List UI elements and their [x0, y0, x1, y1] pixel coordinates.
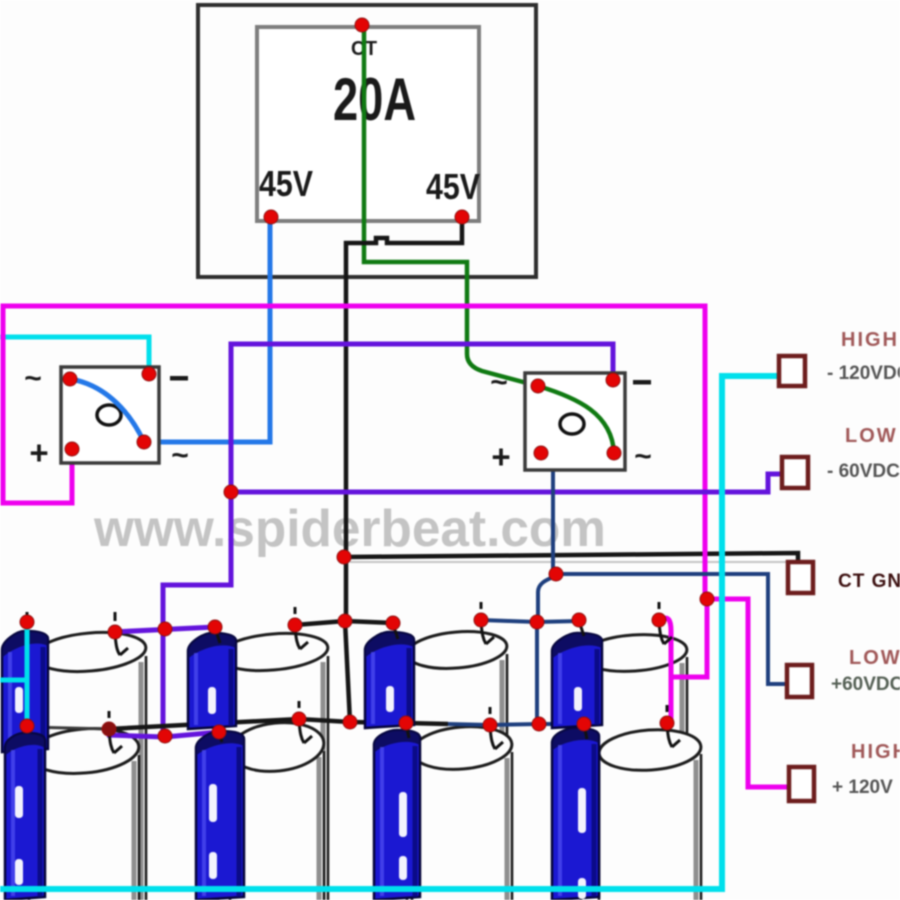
- capacitor C7 sleeve (blue sleeve): [374, 730, 420, 900]
- capacitor C8 can (white cylinder): [598, 726, 703, 900]
- pin C4 minus: [579, 621, 584, 636]
- node purple junction B: [158, 622, 172, 636]
- capacitor C2 can (white cylinder): [217, 629, 330, 900]
- node navy junction A: [549, 567, 563, 581]
- wire navy top cap rail: [481, 620, 579, 622]
- node U1 AC1: [63, 372, 77, 386]
- svg-text:- 120VDC: - 120VDC: [827, 363, 900, 384]
- node C8 plus: [660, 716, 674, 730]
- wire magenta link to C4 C8: [659, 601, 707, 719]
- output terminal HIGH +120V: [789, 741, 900, 801]
- capacitor C1 sleeve (blue sleeve): [2, 631, 48, 752]
- svg-text:45V: 45V: [259, 163, 313, 204]
- node C3 minus: [386, 616, 400, 630]
- node C6 plus: [292, 712, 306, 726]
- output terminal HIGH -120VDC: [779, 329, 900, 386]
- pin C6 plus: [299, 701, 312, 743]
- svg-text:HIGH: HIGH: [851, 741, 900, 763]
- svg-text:www.spiderbeat.com: www.spiderbeat.com: [93, 500, 606, 558]
- pin C6 minus: [219, 733, 222, 742]
- svg-text:~: ~: [634, 440, 652, 473]
- svg-text:+: +: [491, 438, 510, 475]
- wire magenta +120V rail: [3, 306, 705, 599]
- node C1 minus: [20, 615, 34, 629]
- node C6 minus: [212, 725, 226, 739]
- svg-text:+ 120V: + 120V: [832, 777, 893, 798]
- capacitor C2 sleeve (blue sleeve): [188, 633, 236, 729]
- wire purple bottom cap rail: [107, 732, 219, 737]
- pin C2 plus: [295, 607, 308, 649]
- node black junction A: [337, 550, 351, 564]
- capacitor C5 sleeve (blue sleeve): [5, 733, 45, 900]
- node U2 plus: [534, 446, 548, 460]
- wire black CT GND feed: [344, 553, 798, 566]
- wire navy to LOW +60VDC terminal: [553, 574, 799, 684]
- wire magenta to HIGH +120V terminal: [705, 599, 801, 787]
- wire purple top cap rail: [113, 627, 215, 632]
- pin C1 minus: [26, 612, 29, 622]
- capacitor C5 can (white cylinder): [27, 724, 140, 900]
- pin C7 plus: [490, 707, 503, 749]
- wire navy bridge U2 plus: [541, 453, 553, 574]
- capacitor C4 sleeve (blue sleeve): [552, 633, 602, 728]
- node U2 AC2: [607, 446, 621, 460]
- node C8 minus: [577, 717, 591, 731]
- node black junction C: [343, 715, 357, 729]
- wire black vertical between cap rails: [345, 621, 350, 722]
- wire navy vertical between cap rails: [535, 622, 539, 724]
- transformer T1 secondary winding box: [257, 27, 479, 221]
- wire cyan right loop to HIGH -120VDC: [0, 376, 790, 889]
- pin C1 plus: [115, 612, 128, 655]
- node navy junction B: [530, 615, 544, 629]
- node U2 AC1: [531, 379, 545, 393]
- transformer T1 outer case: [198, 5, 536, 277]
- wire gray link C5: [28, 727, 109, 729]
- wire blue 45V left to bridge U1: [146, 217, 270, 442]
- node C7 plus: [483, 718, 497, 732]
- node C5 minus: [20, 719, 34, 733]
- wire purple -60V net: [231, 344, 797, 492]
- node U1 plus: [65, 442, 79, 456]
- pin C8 plus: [667, 705, 680, 747]
- svg-text:45V: 45V: [426, 166, 480, 207]
- svg-text:~: ~: [171, 439, 189, 472]
- capacitor C3 can (white cylinder): [406, 628, 509, 900]
- node CT terminal: [355, 18, 369, 32]
- svg-text:~: ~: [24, 362, 42, 395]
- pin C8 minus: [584, 725, 587, 739]
- node C4 plus: [652, 613, 666, 627]
- node black junction B: [338, 614, 352, 628]
- svg-text:HIGH: HIGH: [841, 329, 899, 351]
- pin C2 minus: [215, 628, 220, 643]
- wire navy jog to top rail: [538, 576, 556, 621]
- wire black bottom cap rail: [109, 719, 448, 729]
- node U1 minus: [142, 367, 156, 381]
- bridge rectifier U2: [490, 366, 652, 475]
- pin C4 plus: [659, 602, 672, 644]
- svg-text:LOW: LOW: [845, 425, 898, 447]
- wire cyan link C1 top to C5: [25, 620, 30, 727]
- wire cyan bridge U1 minus to left edge: [0, 337, 149, 374]
- wire green CT to bridge U2: [364, 25, 538, 386]
- svg-text:+: +: [29, 434, 48, 471]
- node U2 minus: [606, 373, 620, 387]
- node magenta junction: [700, 592, 714, 606]
- capacitor C6 can (white cylinder): [228, 718, 327, 900]
- output terminal LOW -60VDC: [782, 425, 900, 488]
- svg-text:LOW: LOW: [849, 647, 900, 669]
- node C5 plus: [102, 722, 116, 736]
- ghost echo of CT wire: [350, 561, 795, 563]
- svg-text:+60VDC: +60VDC: [831, 674, 900, 695]
- wire purple down to cap rails: [163, 490, 231, 737]
- pin C5 plus: [109, 711, 122, 753]
- wire navy bottom cap rail: [448, 724, 584, 725]
- svg-text:- 60VDC: - 60VDC: [827, 461, 900, 482]
- node C7 minus: [399, 716, 413, 730]
- capacitor C8 sleeve (blue sleeve): [552, 728, 599, 900]
- capacitor C4 can (white cylinder): [580, 631, 688, 900]
- capacitor C7 can (white cylinder): [410, 723, 513, 900]
- node C4 minus: [572, 613, 586, 627]
- node C2 minus: [208, 620, 222, 634]
- wire black top cap rail: [295, 621, 393, 625]
- svg-text:~: ~: [490, 366, 508, 399]
- pin C3 minus: [393, 624, 398, 639]
- wire cyan stub to C1: [0, 678, 27, 683]
- pin C7 minus: [406, 724, 409, 738]
- node U1 AC2: [137, 435, 151, 449]
- capacitor C1 can (white cylinder): [33, 628, 148, 900]
- bridge rectifier U1: [24, 362, 189, 472]
- node purple junction C: [158, 729, 172, 743]
- wire black 45V right to ground rails: [346, 217, 462, 621]
- node navy junction C: [532, 717, 546, 731]
- node 45V right terminal: [455, 210, 469, 224]
- node C3 plus: [474, 613, 488, 627]
- pin C3 plus: [481, 602, 494, 644]
- output terminal LOW +60VDC: [787, 647, 900, 697]
- node purple junction A: [224, 485, 238, 499]
- capacitor C3 sleeve (blue sleeve): [365, 632, 414, 728]
- svg-text:CT GND: CT GND: [838, 571, 900, 592]
- svg-text:20A: 20A: [333, 66, 416, 133]
- output terminal CT GND: [788, 562, 900, 593]
- node C1 plus: [108, 625, 122, 639]
- capacitor C6 sleeve (blue sleeve): [196, 731, 244, 900]
- node 45V left terminal: [264, 210, 278, 224]
- node C2 plus: [288, 618, 302, 632]
